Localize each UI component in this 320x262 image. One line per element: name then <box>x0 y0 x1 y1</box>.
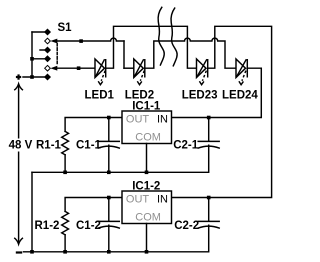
svg-text:C1-1: C1-1 <box>76 140 102 152</box>
svg-text:C1-2: C1-2 <box>76 220 101 232</box>
svg-text:C2-2: C2-2 <box>174 220 199 232</box>
svg-text:LED24: LED24 <box>222 90 258 102</box>
svg-text:IC1-2: IC1-2 <box>132 180 160 192</box>
svg-text:R1-1: R1-1 <box>36 140 62 152</box>
svg-text:COM: COM <box>135 212 161 224</box>
svg-text:C2-1: C2-1 <box>173 140 199 152</box>
svg-text:48 V: 48 V <box>9 140 33 152</box>
svg-text:IN: IN <box>157 113 168 125</box>
svg-text:IC1-1: IC1-1 <box>132 100 161 112</box>
svg-text:IN: IN <box>157 193 168 205</box>
svg-text:LED23: LED23 <box>182 90 218 102</box>
svg-text:OUT: OUT <box>126 193 149 205</box>
svg-text:OUT: OUT <box>126 113 149 125</box>
svg-text:LED1: LED1 <box>85 90 115 102</box>
svg-text:R1-2: R1-2 <box>35 220 60 232</box>
svg-text:COM: COM <box>135 132 161 144</box>
svg-text:S1: S1 <box>58 22 73 34</box>
